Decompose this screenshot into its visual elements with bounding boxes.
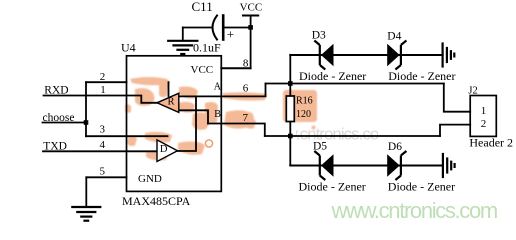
pin 1 RXD wire with jog to R apex (44, 96, 158, 103)
svg-text:D5: D5 (313, 141, 327, 153)
svg-text:RXD: RXD (44, 85, 68, 97)
ground under C11 stem (182, 28, 184, 41)
svg-text:VCC: VCC (191, 64, 214, 76)
svg-text:R: R (168, 96, 175, 107)
svg-text:2: 2 (481, 118, 487, 130)
pin 5 wire (86, 176, 126, 178)
svg-text:4: 4 (100, 139, 106, 151)
junction dot A rail R16 (288, 81, 293, 86)
B rail to J2 pin2 (440, 125, 470, 136)
choose vertical tie pin2-pin3 (85, 82, 87, 136)
D5 D6 wire (290, 165, 443, 167)
svg-text:C11: C11 (192, 0, 213, 14)
VCC stem wire (250, 16, 252, 69)
R bottom input wire (179, 110, 208, 123)
capacitor C11 curved plate (213, 16, 218, 40)
svg-text:A: A (214, 81, 222, 92)
svg-text:GND: GND (138, 173, 162, 185)
capacitor C11 straight plate (222, 16, 225, 40)
junction dot B rail R16 (288, 134, 293, 139)
R16 body (286, 96, 294, 122)
choose wire (43, 122, 87, 124)
svg-text:Diode - Zener: Diode - Zener (388, 69, 455, 83)
pin 7 wire B net (208, 124, 265, 137)
diode D3 zener (314, 41, 333, 70)
op-amp D buffer U4 driver (157, 140, 178, 162)
svg-text:8: 8 (243, 57, 249, 69)
R16 top stub (289, 84, 291, 97)
svg-text:TXD: TXD (43, 141, 67, 153)
wire capacitor to VCC stem (223, 27, 250, 29)
ground right top bars (442, 44, 444, 67)
svg-text:VCC: VCC (240, 2, 263, 14)
op-amp R buffer U4 receiver (157, 93, 179, 112)
R16 stub to D3 line (289, 55, 291, 84)
svg-text:www.cntronics.com: www.cntronics.com (331, 198, 497, 223)
svg-text:B: B (214, 109, 221, 120)
stub B rail to D5 line (289, 136, 291, 166)
A rail (266, 83, 444, 85)
capacitor C11 wire left (183, 27, 212, 29)
highlight smudges layer (125, 77, 317, 161)
svg-text:R16: R16 (296, 95, 313, 106)
svg-text:6: 6 (243, 83, 249, 95)
ground under C11 bars (168, 40, 197, 42)
B rail (265, 135, 440, 137)
R16 bottom stub (289, 122, 291, 137)
svg-text:Diode - Zener: Diode - Zener (388, 180, 455, 194)
svg-text:Diode - Zener: Diode - Zener (299, 180, 366, 194)
junction dot choose (84, 120, 89, 125)
ground right bottom bars (442, 154, 444, 177)
pin 4 TXD wire (43, 150, 157, 152)
pin 6 wire A net (179, 84, 266, 97)
pin 3 wire (86, 135, 168, 137)
svg-text:D: D (160, 144, 168, 155)
svg-text:Header 2: Header 2 (469, 135, 513, 149)
svg-text:1: 1 (481, 105, 487, 117)
pin 5 ground stem (85, 177, 87, 206)
pin 2 enable drop to R (168, 82, 170, 96)
svg-text:3: 3 (100, 124, 106, 136)
svg-text:Diode - Zener: Diode - Zener (299, 69, 366, 83)
svg-text:5: 5 (100, 166, 106, 178)
svg-text:www.cntronics.com: www.cntronics.com (262, 125, 392, 144)
svg-text:D4: D4 (387, 31, 401, 43)
svg-text:2: 2 (100, 71, 106, 83)
A rail to J2 pin1 (444, 84, 470, 112)
svg-text:D3: D3 (312, 29, 326, 41)
pin 2 wire (86, 81, 127, 83)
ground bottom-left bars (72, 206, 100, 208)
diode D4 zener (387, 41, 406, 70)
svg-text:D6: D6 (388, 141, 402, 153)
svg-text:U4: U4 (121, 40, 136, 54)
J2 box (470, 96, 496, 137)
svg-text:1: 1 (100, 84, 106, 96)
diode D6 zener (387, 151, 406, 180)
VCC power bar (243, 15, 258, 17)
D output wire (178, 96, 197, 151)
svg-text:7: 7 (243, 112, 249, 124)
U4 chip box (127, 56, 222, 192)
svg-text:0.1uF: 0.1uF (193, 41, 221, 55)
svg-text:+: + (227, 27, 234, 42)
D3 D4 wire (290, 54, 442, 56)
svg-text:choose: choose (43, 112, 75, 124)
svg-text:120: 120 (296, 109, 311, 120)
circled mark (205, 140, 212, 147)
svg-text:J2: J2 (468, 86, 477, 97)
diode D5 zener (314, 151, 333, 180)
pin 8 wire (221, 67, 250, 69)
svg-text:MAX485CPA: MAX485CPA (122, 194, 191, 208)
junction dot VCC stem (248, 25, 253, 30)
